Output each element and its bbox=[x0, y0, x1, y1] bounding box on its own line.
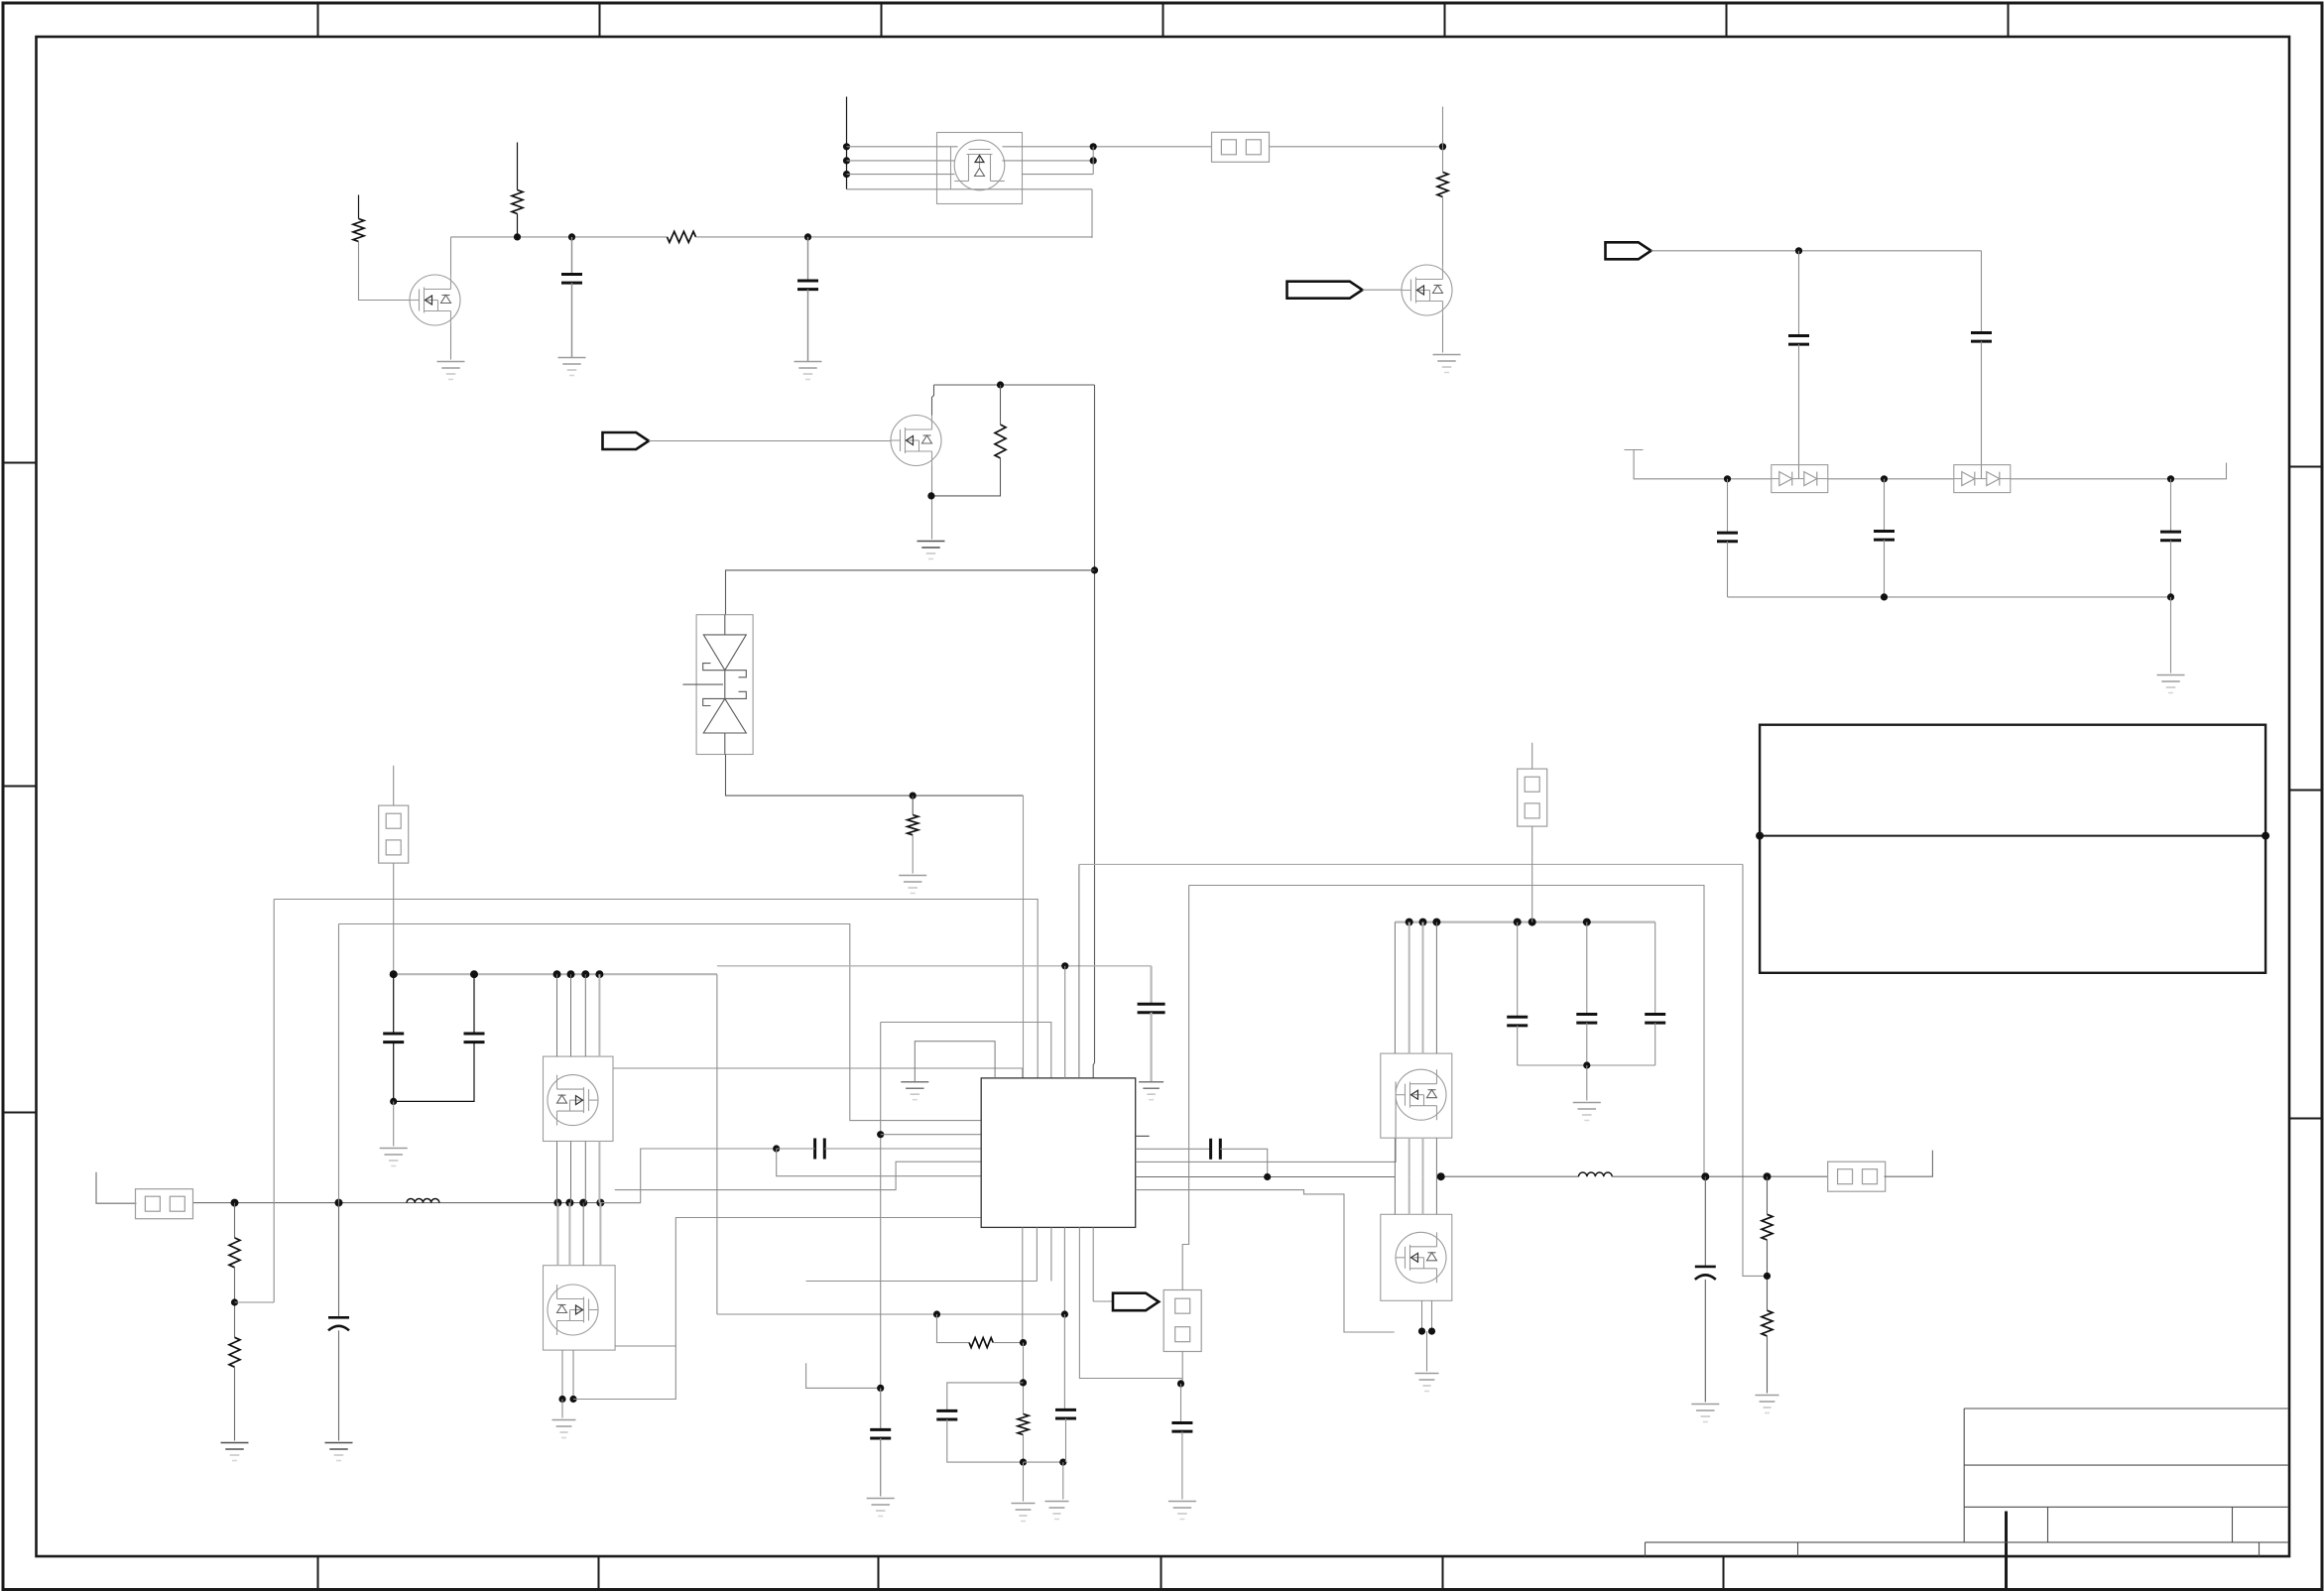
wire module bottom row bbox=[847, 188, 1093, 190]
capacitor C12 bbox=[1645, 1015, 1665, 1024]
wire flag to corner bbox=[1651, 250, 1982, 252]
capacitor C4 bbox=[1971, 333, 1992, 342]
wire CS1 lower branch bbox=[777, 1149, 982, 1176]
wire J6 stub top bbox=[1181, 1247, 1183, 1289]
wire input stub bbox=[96, 1172, 137, 1204]
capacitor C3 bbox=[1788, 336, 1809, 345]
wire C17 to ground bbox=[1181, 1431, 1183, 1499]
wire boost bus bbox=[1395, 920, 1654, 922]
wire diode bus left T bbox=[1634, 450, 1771, 479]
wire IC SS pin bbox=[1092, 1227, 1094, 1301]
wire C3 lower into diode box bbox=[1798, 344, 1800, 479]
note box bbox=[1760, 725, 2265, 973]
node rail R5 bbox=[997, 381, 1004, 388]
wire C11 lower bbox=[1586, 1023, 1588, 1065]
node Vout divider bbox=[1764, 1172, 1772, 1180]
wire VIN bus bbox=[394, 973, 717, 975]
node FB tap bbox=[1764, 1273, 1771, 1280]
mosfet Q6 box bbox=[1381, 1053, 1452, 1138]
wire C8 lower bbox=[393, 1042, 395, 1102]
capacitor C14 bbox=[870, 1429, 891, 1438]
capacitor C15 bbox=[936, 1410, 957, 1419]
wire C5 upper bbox=[1727, 479, 1729, 533]
wire FB1 riser at IC bbox=[1078, 864, 1080, 1078]
wire SW to cap line bbox=[600, 1149, 776, 1203]
wire HS gate right bbox=[1136, 1082, 1396, 1163]
capacitor CS1 series bbox=[815, 1139, 825, 1160]
wire J1 to R4 node bbox=[1270, 146, 1443, 148]
wire Q7 to ground bbox=[1426, 1331, 1428, 1371]
ground diode network bbox=[2157, 675, 2185, 693]
net flag VBOOT bbox=[1606, 242, 1651, 259]
wire FB1 drop right bbox=[1743, 864, 1768, 1276]
wire C5 lower bbox=[1727, 542, 1729, 597]
node boost c bbox=[1432, 918, 1440, 926]
wire C2 upper bbox=[807, 237, 809, 281]
wire rails SW to Q7 bbox=[1394, 1176, 1396, 1214]
wire Q3 drain up bbox=[932, 385, 934, 416]
wire rails Q7 down bbox=[1421, 1300, 1423, 1331]
wire corner down to C4 bbox=[1981, 251, 1983, 333]
ground C14 bbox=[867, 1499, 895, 1517]
wire zener top link bbox=[726, 570, 1095, 615]
wire Q1 source to ground bbox=[450, 325, 452, 360]
wire R8 to ground bbox=[234, 1367, 236, 1440]
ground Q3 bbox=[917, 542, 945, 559]
wire module input vertical bbox=[846, 97, 848, 189]
wire zener bottom link bbox=[726, 755, 1024, 796]
inductor L1 bbox=[407, 1198, 439, 1202]
node C14 top bbox=[877, 1385, 884, 1392]
wire comp gnd a drop bbox=[1023, 1462, 1025, 1501]
wire stub above R2 bbox=[517, 143, 519, 190]
wire Q5 kelvin route bbox=[573, 1218, 981, 1400]
wire IC bottom aux line bbox=[806, 1281, 1038, 1283]
ground R6 bbox=[899, 876, 926, 894]
wire Q5 gate route bbox=[615, 1162, 981, 1189]
wire LS gate right bbox=[1136, 1190, 1395, 1332]
diode pair D3 bbox=[1954, 465, 2011, 493]
wire diode bus right bbox=[2011, 463, 2227, 479]
wire CS1 leads bbox=[777, 1148, 815, 1150]
mosfet Q4 box bbox=[544, 1056, 614, 1141]
wire R1 to Q1 gate bbox=[359, 242, 410, 301]
wire VIN bus drop bbox=[716, 974, 718, 1314]
wire comp jog to R9 bbox=[937, 1314, 970, 1343]
module U1 inner post bbox=[950, 147, 952, 189]
wire SW out bus bbox=[1441, 1175, 1579, 1177]
wire R11 top lead bbox=[1767, 1176, 1769, 1214]
wire Q3 source bbox=[931, 466, 933, 540]
node out-cap rail bbox=[1583, 1061, 1590, 1068]
resistor R3 series bbox=[668, 231, 696, 242]
capacitor C1 bbox=[561, 275, 582, 284]
node input R7 bbox=[231, 1199, 239, 1207]
wire R4 leads bbox=[1442, 147, 1444, 173]
resistor R12 divider bottom bbox=[1762, 1310, 1773, 1336]
capacitor C8 bbox=[383, 1034, 404, 1042]
ground out-caps bbox=[1573, 1103, 1601, 1121]
wire C16 upper bbox=[1063, 1314, 1065, 1409]
node C8 C9 join bbox=[390, 1098, 397, 1105]
node module out 2 bbox=[1090, 157, 1097, 164]
wire out-cap rail bbox=[1518, 1064, 1655, 1066]
wire comp line right bbox=[1136, 1148, 1211, 1150]
ground R8 bbox=[221, 1443, 249, 1461]
node boost a bbox=[1406, 918, 1413, 926]
ground Q1 bbox=[437, 362, 465, 380]
wire tap to sense riser bbox=[235, 1301, 275, 1303]
net flag EN bbox=[1287, 282, 1363, 299]
wire join to ground bbox=[393, 1101, 395, 1146]
node module in 2 bbox=[843, 157, 850, 164]
capacitor C9 bbox=[464, 1034, 485, 1042]
wire Q4 gate route bbox=[613, 1068, 1023, 1078]
resistor R1 bbox=[353, 219, 364, 242]
resistor R7 bbox=[229, 1238, 240, 1268]
node Q5 source b bbox=[569, 1396, 576, 1403]
capacitor C16 bbox=[1055, 1409, 1076, 1418]
ground R12 bbox=[1756, 1396, 1779, 1413]
wire cap return rail bbox=[1728, 596, 2171, 598]
node boost f bbox=[1583, 918, 1591, 926]
resistor R5 bbox=[995, 425, 1006, 458]
wire IC pin stub right bbox=[1136, 1135, 1150, 1137]
wire C19 lower bbox=[1704, 1280, 1706, 1403]
wire C14 upper bbox=[880, 1388, 882, 1429]
capacitor C2 bbox=[797, 281, 818, 290]
TVS D1 box bbox=[696, 615, 753, 755]
wire top rail to long vertical bbox=[934, 384, 1095, 386]
wire VCC to IC bbox=[1064, 966, 1066, 1078]
wire R10 bottom bbox=[1023, 1435, 1025, 1463]
node R4 top bbox=[1439, 143, 1446, 150]
wire VIN riser from bus bbox=[338, 924, 340, 1203]
node module in 3 bbox=[843, 171, 850, 178]
ground C13 bbox=[1139, 1082, 1163, 1100]
wire J4 to VIN bus bbox=[393, 863, 395, 974]
capacitor C17 bbox=[1171, 1423, 1192, 1432]
wire VCC line bbox=[717, 965, 1152, 967]
wire IC bottom pin FB2 bbox=[1063, 1227, 1065, 1314]
node C15 branch bbox=[1020, 1379, 1027, 1386]
node comp gnd b bbox=[1059, 1459, 1066, 1466]
node R10 top bbox=[1020, 1339, 1027, 1346]
connector J6 sense bbox=[1163, 1290, 1201, 1352]
resistor R4 bbox=[1437, 173, 1448, 197]
node SW bus b bbox=[565, 1199, 573, 1207]
wire rails Q4 to SW bbox=[556, 1142, 558, 1203]
transistor Q3 bbox=[891, 416, 941, 466]
wire Q5 aux route bbox=[615, 1345, 676, 1347]
node Q5 source a bbox=[558, 1396, 565, 1403]
wire R6 to ground bbox=[912, 835, 914, 874]
node Vout cap bbox=[1701, 1172, 1709, 1180]
ground C2 bbox=[795, 362, 822, 380]
node SW bus d bbox=[596, 1199, 604, 1207]
node boost d bbox=[1514, 918, 1522, 926]
wire Q1 drain bbox=[450, 237, 452, 275]
wire Q5 source to ground bbox=[561, 1400, 563, 1418]
wire bus after R3 bbox=[696, 236, 1093, 238]
wire module out row1 bbox=[1003, 146, 1212, 148]
node Q7 source a bbox=[1418, 1328, 1425, 1335]
wire C13 to ground bbox=[1150, 1013, 1152, 1082]
ground Q5 bbox=[552, 1420, 576, 1438]
node rail right bbox=[2167, 593, 2174, 600]
wire R5 bottom to Q3 source bbox=[931, 458, 1001, 496]
wire module in row1 bbox=[847, 146, 958, 148]
wire R7 R8 link bbox=[234, 1268, 236, 1338]
transistor Q7 low-side right bbox=[1396, 1232, 1446, 1283]
net flag PWM bbox=[603, 432, 650, 449]
node diode bus 1 bbox=[1724, 475, 1731, 482]
node VIN rail a bbox=[553, 970, 561, 978]
wire C18 lower bbox=[338, 1330, 340, 1440]
wire C1 lower to ground bbox=[571, 283, 573, 357]
node VIN rail c bbox=[581, 970, 589, 978]
node VCC bbox=[1061, 962, 1068, 969]
wire IC bottom pin aux2 bbox=[1050, 1227, 1052, 1281]
node rail mid bbox=[1881, 593, 1888, 600]
wire C16 lower bbox=[1065, 1418, 1067, 1462]
wire C12 upper bbox=[1654, 922, 1656, 1015]
frame zone ticks left bbox=[4, 462, 37, 464]
node boost b bbox=[1419, 918, 1427, 926]
module U1 box bbox=[937, 133, 1023, 204]
wire C6 upper bbox=[1884, 479, 1886, 532]
ground C1 bbox=[558, 358, 586, 376]
capacitor C7 bbox=[2160, 532, 2181, 541]
wire C9 upper bbox=[473, 974, 475, 1034]
capacitor CS2 series bbox=[1211, 1139, 1221, 1160]
wire C14 to ground bbox=[880, 1438, 882, 1497]
wire IC gnd left bbox=[915, 1041, 995, 1082]
node module in 1 bbox=[843, 143, 850, 150]
wire VIN monitor line bbox=[339, 924, 982, 1121]
node sense mid bbox=[877, 1131, 884, 1138]
wire stub above R4 node bbox=[1442, 107, 1444, 147]
ground C18 bbox=[325, 1443, 353, 1461]
wire rails Q6 to SW bbox=[1394, 1138, 1396, 1176]
node VIN C8 bbox=[390, 970, 398, 978]
node boost e bbox=[1529, 918, 1536, 926]
ground comp b bbox=[1045, 1502, 1069, 1520]
wire module in row2 bbox=[847, 160, 955, 162]
IC U2 bbox=[981, 1078, 1135, 1228]
mosfet Q5 box bbox=[544, 1266, 616, 1350]
wire FB2 drop link bbox=[1182, 886, 1188, 1248]
wire module bus riser bbox=[1091, 189, 1093, 238]
ground IC left bbox=[901, 1082, 928, 1100]
ground C17 bbox=[1168, 1502, 1196, 1520]
node bus R2 bbox=[514, 233, 521, 240]
wire after L2 bbox=[1612, 1175, 1828, 1177]
ground Q2 bbox=[1433, 355, 1461, 373]
transistor Q1 bbox=[410, 275, 460, 325]
node out bus a bbox=[1437, 1172, 1445, 1180]
wire diode bus mid bbox=[1828, 478, 1954, 480]
node bus C2 bbox=[804, 233, 811, 240]
wire bus VREG top-left bbox=[451, 236, 668, 238]
wire output stub bbox=[1885, 1151, 1933, 1177]
capacitor C11 bbox=[1576, 1015, 1597, 1024]
wire comp gnd link bbox=[1024, 1461, 1063, 1463]
wire J4 stub top bbox=[393, 766, 395, 805]
node VIN rail b bbox=[567, 970, 575, 978]
wire R5 top lead bbox=[1000, 385, 1002, 425]
wire EN to Q2 gate bbox=[1363, 289, 1402, 291]
transistor Q6 high-side right bbox=[1396, 1069, 1446, 1120]
wire sense riser VIN bbox=[273, 900, 275, 1303]
wire R11 R12 link bbox=[1767, 1240, 1769, 1310]
wire FB2 line bbox=[1189, 886, 1704, 1177]
wire long vertical SW to IC bbox=[1093, 385, 1094, 1078]
wire IC bottom pin aux1 bbox=[1036, 1227, 1038, 1281]
node SW bus a bbox=[553, 1199, 561, 1207]
node VIN C9 bbox=[470, 970, 478, 978]
node VIN rail d bbox=[595, 970, 603, 978]
node R6 top bbox=[910, 793, 917, 799]
wire C12 lower bbox=[1654, 1023, 1656, 1065]
wire R10 link bbox=[1023, 1343, 1025, 1414]
wire C4 lower into diode box bbox=[1981, 341, 1983, 479]
transistor Q2 bbox=[1402, 265, 1452, 315]
connector J2 input bbox=[136, 1189, 193, 1219]
capacitor C18 polarized bbox=[328, 1317, 349, 1330]
transistor Q5 low-side left bbox=[548, 1285, 598, 1335]
node Q7 source b bbox=[1428, 1328, 1435, 1335]
ground C19 bbox=[1691, 1405, 1719, 1422]
wire J6 bottom bbox=[1181, 1352, 1183, 1384]
node mid-line right bbox=[2262, 832, 2269, 840]
wire input bus bbox=[193, 1202, 641, 1204]
wire C1 upper bbox=[571, 237, 573, 275]
resistor R10 comp bbox=[1018, 1414, 1029, 1435]
capacitor C6 bbox=[1874, 532, 1895, 541]
wire C3 upper bbox=[1798, 251, 1800, 336]
wire C15 lower bbox=[947, 1419, 1024, 1462]
wire rail to ground bbox=[2170, 597, 2172, 674]
node Q3 source bbox=[927, 492, 934, 499]
node J6 cap bbox=[1177, 1380, 1184, 1387]
node input C18 bbox=[335, 1199, 343, 1207]
wire rails SW to Q5 bbox=[556, 1203, 558, 1266]
node divider tap bbox=[231, 1298, 238, 1305]
mosfet Q7 box bbox=[1381, 1214, 1452, 1300]
node module out 1 bbox=[1090, 143, 1097, 150]
wire R12 to ground bbox=[1767, 1336, 1769, 1394]
capacitor C5 bbox=[1717, 533, 1738, 542]
node CS1 left bbox=[773, 1145, 780, 1152]
wire sense mid to IC bbox=[881, 1134, 982, 1136]
capacitor C10 bbox=[1507, 1017, 1528, 1026]
wire module out row2 bbox=[1003, 160, 1094, 162]
wire C9 lower join bbox=[394, 1042, 474, 1102]
wire C10 lower bbox=[1517, 1026, 1519, 1065]
node SW cap join bbox=[1264, 1173, 1271, 1180]
wire VCC cap leg bbox=[1150, 966, 1152, 1004]
frame zone ticks bottom bbox=[317, 1556, 319, 1590]
wire zener net down to RC bbox=[1023, 796, 1025, 1078]
resistor R8 bbox=[229, 1337, 240, 1367]
wire C7 upper bbox=[2170, 479, 2172, 532]
module U1 mosfet bbox=[954, 140, 1005, 190]
wire stub above R1 bbox=[358, 195, 360, 219]
node zener tap bbox=[1091, 566, 1098, 573]
node comp a bbox=[933, 1310, 940, 1317]
wire sense mid vertical bbox=[880, 1023, 882, 1389]
node boot cap1 bbox=[1795, 247, 1802, 254]
wire PWM to Q3 gate bbox=[649, 440, 891, 442]
wire C6 lower bbox=[1884, 540, 1886, 597]
wire FB1 line bbox=[1079, 863, 1743, 865]
title block outline bbox=[1646, 1408, 2288, 1556]
transistor Q4 high-side left bbox=[548, 1075, 598, 1126]
wire module in row3 bbox=[847, 174, 955, 176]
net flag VOUT SENSE bbox=[1113, 1293, 1159, 1311]
wire SW right bus bbox=[1136, 1176, 1396, 1178]
connector J4 aux bbox=[379, 805, 409, 863]
wire rails VIN to Q4 bbox=[556, 974, 558, 1056]
wire C19 upper bbox=[1704, 1176, 1706, 1267]
resistor R9 comp bbox=[969, 1338, 993, 1348]
frame zone ticks top bbox=[317, 4, 319, 37]
wire C17 upper bbox=[1180, 1384, 1182, 1423]
wire rails boost to Q6 bbox=[1394, 922, 1396, 1054]
wire module out row3 bbox=[1022, 174, 1093, 176]
node diode bus 3 bbox=[2167, 475, 2174, 482]
node mid-line left bbox=[1756, 832, 1764, 840]
wire IC agnd to sense node bbox=[1079, 1227, 1182, 1378]
node comp b bbox=[1061, 1310, 1068, 1317]
wire C18 upper bbox=[338, 1203, 340, 1318]
wire C8 upper bbox=[393, 974, 395, 1034]
capacitor C19 polarized bbox=[1695, 1267, 1716, 1280]
wire rails Q5 to source dots bbox=[561, 1350, 563, 1399]
wire J5 to bus bbox=[1531, 826, 1533, 922]
wire C10 upper bbox=[1517, 922, 1519, 1018]
wire Q2 source to ground bbox=[1442, 315, 1444, 353]
wire C2 lower to ground bbox=[807, 290, 809, 362]
wire comp gnd b drop bbox=[1062, 1462, 1064, 1499]
diode pair D2 bbox=[1772, 465, 1828, 493]
wire R7 top lead bbox=[234, 1203, 236, 1238]
resistor R6 bbox=[908, 815, 918, 835]
wire rail to ground bbox=[1586, 1065, 1588, 1101]
capacitor C13 bbox=[1138, 1004, 1165, 1013]
wire R9 to node bbox=[993, 1342, 1023, 1344]
wire sense mid line bbox=[881, 1023, 1051, 1078]
wire R4 to Q2 drain bbox=[1442, 197, 1444, 266]
wire C7 lower bbox=[2170, 541, 2172, 597]
connector J1 bbox=[1212, 132, 1270, 162]
ground comp a bbox=[1012, 1504, 1036, 1522]
wire C15 branch bbox=[947, 1383, 1024, 1411]
inductor L2 bbox=[1579, 1172, 1613, 1176]
resistor R2 bbox=[512, 190, 523, 214]
resistor R11 divider top bbox=[1762, 1214, 1773, 1240]
wire SS to flag bbox=[1093, 1300, 1113, 1302]
wire comp cap to SW bbox=[1220, 1149, 1267, 1176]
wire VIN sense line bbox=[274, 900, 1038, 1078]
node SW bus c bbox=[579, 1199, 587, 1207]
ground Q7 bbox=[1415, 1374, 1439, 1392]
wire J5 stub bbox=[1531, 743, 1533, 769]
ground input caps bbox=[380, 1149, 408, 1166]
node diode bus 2 bbox=[1881, 475, 1888, 482]
node bus C1 bbox=[568, 233, 575, 240]
